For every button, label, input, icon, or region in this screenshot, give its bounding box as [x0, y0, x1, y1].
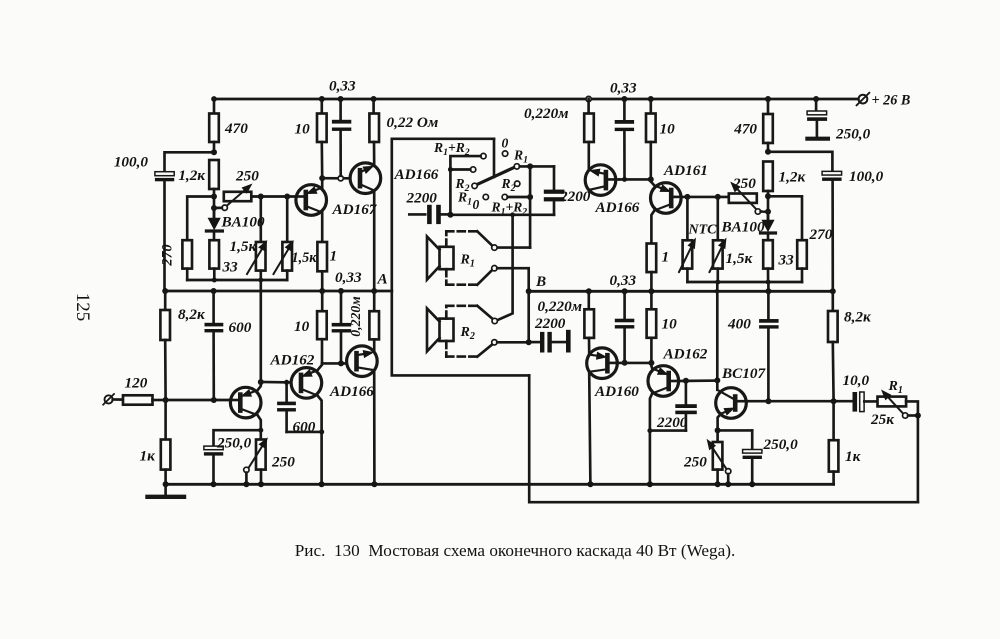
label AD166 module	[394, 166, 439, 183]
svg-text:470: 470	[733, 121, 757, 138]
svg-text:400: 400	[727, 316, 751, 333]
wire ground rail	[166, 483, 834, 486]
node A-rail / capacitor 0,33 lower-left	[338, 288, 344, 294]
node R10/Q1/AD167-base left	[319, 175, 325, 181]
page number 125	[72, 293, 93, 322]
wire AD162 base to bias line right	[679, 379, 718, 382]
wiper contact 250 left-top	[214, 205, 227, 210]
node ground / 250 left	[258, 481, 264, 487]
node A-rail / 100,0 / 8,2k left	[162, 288, 168, 294]
svg-text:2200: 2200	[559, 188, 591, 205]
wiper contact 250 right-bottom	[726, 469, 731, 485]
contact speaker R1 bottom	[492, 266, 497, 271]
node emitter / capacitor 600 lower wire	[319, 429, 324, 434]
wiper contact 25k	[903, 413, 918, 418]
wire Q1 collector up left	[321, 178, 324, 187]
wire bias bracket left	[187, 279, 287, 282]
node ground / capacitor 250,0 right	[749, 481, 755, 487]
svg-text:AD166: AD166	[329, 383, 374, 400]
switch arm	[476, 167, 515, 185]
svg-text:33: 33	[222, 259, 239, 276]
label 0,220м at B	[538, 298, 583, 315]
node base wire / capacitor 600 left	[211, 397, 217, 403]
wire node to AD162 base left	[261, 381, 291, 384]
caption	[295, 541, 736, 560]
wire AD162 emitter down to ground rail left	[317, 396, 321, 485]
transistor AD161	[651, 162, 708, 213]
transistor AD162 left	[270, 352, 322, 399]
label 250 left-bottom	[271, 454, 295, 471]
node 470/1,2k right	[765, 149, 771, 155]
wire AD162 emitter down to ground right	[650, 394, 652, 485]
ground symbol	[148, 484, 185, 497]
thermistor NTC right	[679, 197, 717, 282]
svg-text:470: 470	[224, 120, 248, 137]
svg-text:0,220м: 0,220м	[524, 105, 569, 122]
wire speaker R1 bottom contact to B	[497, 268, 529, 342]
svg-text:0: 0	[473, 197, 480, 212]
speaker R1 cable dashed	[446, 231, 477, 284]
node bottom bus / capacitor 2200 module	[447, 212, 453, 218]
svg-text:NTC: NTC	[688, 223, 718, 238]
wire +26V top supply rail	[214, 98, 858, 101]
capacitor C 400	[727, 316, 779, 402]
svg-text:AD167: AD167	[332, 201, 378, 218]
node left bus / R2 wire	[448, 167, 453, 172]
node B-rail / 0,22 right	[586, 288, 592, 294]
svg-text:1,5к: 1,5к	[726, 250, 754, 267]
wire R1+R2 contact to left bus	[450, 156, 480, 215]
svg-text:1к: 1к	[845, 448, 862, 465]
node emitter / capacitor 250,0 wire left	[258, 428, 263, 433]
input terminal left	[103, 394, 114, 405]
trimmer resistor 1,5k right	[710, 197, 754, 282]
node input/8,2k/1k left	[163, 397, 169, 403]
resistor R 10 top-left	[295, 99, 327, 178]
wire AD166 base to AD161 node	[619, 178, 651, 181]
svg-text:1,5к: 1,5к	[230, 238, 258, 255]
speaker R2 plug bottom	[477, 344, 492, 356]
svg-text:25к: 25к	[870, 411, 895, 428]
node top rail / resistor 470 left	[211, 96, 217, 102]
potentiometer 250 left-bottom	[248, 437, 267, 484]
node base wire / 1,5k-2 left	[284, 194, 290, 200]
wire 25k right end	[906, 401, 918, 502]
node base wire / 1,5k-1 left	[258, 194, 264, 200]
transistor AD160	[587, 348, 640, 400]
node base wire / capacitor 2200 lower right	[683, 378, 689, 384]
node R10 / AD160 base / AD162 collector right	[648, 360, 654, 366]
resistor R 1,2k right	[763, 162, 806, 220]
resistor R 120 input	[113, 375, 166, 405]
svg-text:0,22 Ом: 0,22 Ом	[387, 114, 439, 131]
speaker R1 plug bottom	[477, 270, 492, 285]
node A-rail / resistor 1 left	[319, 288, 325, 294]
node AD162 base / capacitor 600 left	[284, 380, 289, 385]
wire BC107 collector line	[746, 400, 853, 403]
svg-text:8,2к: 8,2к	[178, 306, 206, 323]
svg-text:0,33: 0,33	[610, 80, 637, 97]
node bias line / AD162 base wire right	[714, 377, 720, 383]
wire 33 line down to capacitor 400	[767, 282, 770, 319]
svg-text:0,220м: 0,220м	[348, 296, 363, 337]
svg-text:AD166: AD166	[595, 199, 640, 216]
node B-rail / bias line crossing	[715, 289, 720, 294]
svg-text:2200: 2200	[406, 190, 438, 207]
node B	[526, 273, 546, 294]
svg-text:120: 120	[125, 375, 148, 392]
node top rail / capacitor 250,0	[813, 96, 819, 102]
wire AD162 collector bend up left	[317, 363, 322, 370]
node top rail / capacitor 0,33 top-right	[621, 96, 627, 102]
svg-text:1,2к: 1,2к	[779, 169, 807, 186]
contact R1+R2 bottom	[491, 194, 528, 217]
resistor R 1 right	[647, 244, 669, 292]
capacitor C 250,0 top (electrolytic)	[807, 99, 870, 143]
wire branch down to speaker R2 top contact	[497, 215, 513, 320]
wire speaker R2 bottom contact to node	[497, 341, 529, 344]
node ground / AD166 collector left	[371, 481, 377, 487]
resistor R 270 right	[797, 226, 832, 282]
wiper contact 250 left-bottom	[244, 467, 249, 484]
wire feedback return bottom	[529, 375, 918, 502]
svg-text:270: 270	[160, 244, 176, 266]
wire Q0 collector to AD162 base node	[258, 382, 261, 390]
resistor R 270 left	[160, 240, 193, 280]
capacitor C 0,33 lower-left	[332, 291, 352, 363]
capacitor C 2200 at B (two electrolytics)	[529, 315, 571, 353]
svg-text:250,0: 250,0	[835, 126, 871, 143]
resistor R 0,22 Ом top-left	[369, 99, 438, 166]
capacitor C 0,33 top-left	[329, 78, 356, 176]
svg-text:AD162: AD162	[270, 352, 315, 369]
wire R2 contact to left bus	[450, 168, 470, 171]
node Q0-collector/AD162-base left	[258, 379, 264, 385]
resistor R 0,22 lower-left	[348, 291, 379, 352]
node ground / capacitor 250,0 left	[211, 481, 217, 487]
svg-text:AD160: AD160	[594, 383, 639, 400]
capacitor C 0,33 lower-right	[615, 291, 635, 363]
contact R1+R2 top	[433, 140, 486, 159]
capacitor C 2200 lower-right	[650, 381, 697, 431]
svg-text:250: 250	[683, 454, 707, 471]
wire arm contact to capacitor 2200 mid	[520, 165, 554, 168]
wire AD166 base node left	[322, 362, 357, 365]
node ground / wiper left	[243, 481, 249, 487]
node top rail / resistor 10 left	[319, 96, 325, 102]
svg-text:BA100: BA100	[721, 219, 765, 236]
svg-text:AD161: AD161	[663, 162, 708, 179]
wire trimmer to transistor base left	[251, 195, 296, 198]
diode BA100 right	[721, 215, 776, 240]
wire AD161 emitter down	[651, 211, 654, 244]
node A-rail / capacitor 600 left	[211, 288, 217, 294]
node BC107 emitter / 250 / 250,0 right	[715, 427, 721, 433]
contact speaker R2 top	[492, 318, 497, 323]
svg-text:250: 250	[732, 175, 756, 192]
contact R2 middle-left	[455, 167, 476, 194]
svg-text:BA100: BA100	[221, 214, 265, 231]
contact R2 middle-right	[501, 176, 520, 194]
speaker R2 plug top	[477, 306, 492, 319]
svg-text:0,33: 0,33	[610, 272, 637, 289]
svg-text:1,5к: 1,5к	[292, 250, 318, 266]
svg-text:0,220м: 0,220м	[538, 298, 583, 315]
contact arm left end	[472, 183, 477, 188]
wire bias line down right (1,5k to AD162 base node)	[716, 282, 719, 380]
svg-text:1,2к: 1,2к	[178, 167, 206, 184]
svg-text:+ 26 В: + 26 В	[872, 93, 911, 109]
svg-text:125: 125	[72, 293, 93, 322]
node 470/1,2k left	[211, 149, 217, 155]
resistor R 470 right	[733, 99, 773, 152]
ground chassis under 250,0	[807, 137, 828, 141]
speaker R1 plug top	[477, 231, 492, 246]
node ground / 1k left	[163, 481, 169, 487]
contact speaker R2 bottom	[492, 340, 497, 345]
wire bias node to resistor 270 right	[768, 196, 802, 240]
wire AD167 collector to A rail	[373, 191, 376, 291]
wire bottom bus of switch block	[450, 213, 554, 216]
wire B rail	[529, 290, 833, 293]
contact 0 bottom	[473, 194, 489, 212]
wire node to capacitor 100,0 left	[165, 152, 215, 171]
node B-rail / capacitor 0,33 lower-right	[622, 288, 628, 294]
node 1,2k/bias left	[211, 194, 217, 200]
svg-text:AD162: AD162	[663, 346, 708, 363]
node bracket / 33 right	[766, 280, 771, 285]
module box AD166 output block	[392, 139, 529, 376]
svg-text:0: 0	[502, 136, 509, 151]
wire emitter node to capacitor 250,0 right	[718, 429, 753, 432]
resistor R 10 lower-right	[647, 291, 677, 363]
svg-text:1: 1	[330, 248, 338, 265]
node switch right bus bottom	[527, 194, 533, 200]
svg-text:2200: 2200	[534, 315, 566, 332]
capacitor C 600 upper-left	[205, 291, 252, 400]
resistor R 8,2k left	[160, 291, 206, 400]
node top rail / resistor 10 right	[648, 96, 654, 102]
node B-rail end / 100,0 / 8,2k right	[830, 288, 836, 294]
capacitor C 250,0 right (electrolytic)	[743, 430, 798, 484]
wire R1+R2 bottom contact to right bus	[508, 196, 530, 199]
node A	[371, 271, 387, 295]
svg-text:B: B	[535, 273, 546, 290]
node switch right bus top	[527, 163, 533, 169]
svg-text:10: 10	[295, 121, 311, 138]
speaker R2 cable dashed	[446, 306, 477, 357]
capacitor C 100,0 left (electrolytic)	[114, 154, 174, 292]
capacitor C 10,0 (electrolytic)	[843, 372, 878, 412]
trimmer resistor 1,5k left no.2	[274, 197, 318, 281]
resistor R 8,2k right	[828, 291, 872, 401]
node 25k wiper	[915, 413, 921, 419]
speaker R2	[427, 308, 475, 351]
resistor R 0,22 lower-right	[584, 291, 594, 354]
capacitor C 2200 mid vertical (electrolytic)	[544, 166, 591, 214]
label R1 middle	[457, 190, 472, 208]
node emitter / capacitor 2200 lower wire right	[647, 428, 652, 433]
capacitor C 0,33 top-right	[610, 80, 637, 178]
resistor R 10 top-right	[646, 99, 675, 179]
svg-text:0,33: 0,33	[329, 78, 356, 95]
transistor AD166 upper-right	[585, 165, 640, 216]
wire node to AD167 base	[322, 177, 350, 180]
svg-text:600: 600	[229, 319, 252, 336]
wire AD161 collector bend up	[651, 179, 655, 185]
svg-text:10: 10	[294, 318, 310, 335]
node R10 right / AD161 collector	[648, 176, 654, 182]
wire switch right bus	[529, 166, 532, 247]
node 1,2k/bias right	[765, 193, 771, 199]
wire AD162 collector bend up right	[650, 363, 653, 369]
potentiometer R1 25k feedback	[870, 379, 906, 428]
wire A rail	[165, 290, 392, 293]
svg-text:10: 10	[662, 316, 678, 333]
svg-text:0,33: 0,33	[335, 269, 362, 286]
wire bias bracket right	[687, 281, 802, 284]
transistor AD166 lower-left	[329, 346, 377, 400]
svg-text:1к: 1к	[140, 448, 157, 465]
resistor R 10 lower-left	[294, 291, 327, 363]
node ground / AD162 emitter right	[647, 481, 653, 487]
svg-text:250,0: 250,0	[763, 436, 799, 453]
node top rail / resistor 0,22 right (open junction)	[586, 96, 591, 101]
speaker R1	[427, 237, 475, 280]
wire AD161 base to trimmer right	[681, 196, 729, 199]
transistor Q1 driver left	[296, 185, 327, 216]
node collector line / 8,2k / 1k right	[831, 398, 837, 404]
node B-rail / capacitor 400 line	[765, 288, 771, 294]
resistor R 1 left	[317, 242, 337, 291]
node cap 0,33 top-right lead	[622, 177, 627, 182]
resistor R 470 left	[209, 99, 248, 152]
capacitor C 100,0 right (electrolytic)	[822, 168, 883, 291]
resistor R 33 right	[763, 240, 794, 282]
wire BC107 emitter down	[718, 414, 721, 431]
node ground / AD160 line	[587, 481, 593, 487]
wire Q0 emitter down	[258, 415, 261, 439]
node base wire / NTC right	[684, 194, 690, 200]
node ground / 250 right	[715, 481, 721, 487]
transistor Q0 input left	[230, 387, 261, 418]
resistor R 1k right	[829, 401, 862, 484]
resistor R 1k left	[140, 400, 171, 484]
node bottom bus / speaker R2 branch	[510, 212, 515, 217]
contact 0 top	[502, 136, 509, 157]
svg-text:Рис. 130 Мостовая схема окон: Рис. 130 Мостовая схема оконечного каска…	[295, 541, 736, 560]
wire switch common from box top	[493, 139, 496, 177]
terminal +26V	[857, 93, 911, 109]
node base wire / capacitor 0,33 lower-right	[622, 360, 628, 366]
svg-text:250: 250	[271, 454, 295, 471]
label 0,33 right rail	[610, 272, 637, 289]
node ground / wiper right	[725, 481, 731, 487]
node bracket/1,5k-1 left	[258, 278, 263, 283]
svg-text:33: 33	[778, 252, 795, 269]
potentiometer 250 right-bottom	[683, 430, 726, 484]
wire input base wire left	[166, 399, 231, 402]
wire node to capacitor 100,0 right	[768, 152, 832, 171]
wire Q1 emitter down	[321, 213, 324, 243]
node bracket / 1,5k right	[715, 280, 720, 285]
transistor BC107	[716, 365, 767, 418]
svg-text:A: A	[377, 271, 388, 288]
svg-text:250: 250	[235, 168, 259, 185]
svg-text:8,2к: 8,2к	[844, 309, 872, 326]
label 0,33 left	[335, 269, 362, 286]
node base wire / 1,5k right	[715, 194, 721, 200]
wire bias node to resistor 270 left	[187, 197, 214, 241]
wire AD160 base to AD162 collector node	[617, 362, 651, 365]
node top rail / capacitor 0,33 top-left	[338, 96, 344, 102]
contact speaker R1 top	[492, 245, 497, 250]
diode BA100 left	[206, 212, 265, 240]
node trimmer wiper right	[765, 209, 771, 215]
junction capacitor lead (open) left	[338, 176, 343, 181]
wiper contact 250 right-top	[755, 209, 768, 214]
wire bracket down to lower stage left	[259, 280, 262, 382]
wire AD160 emitter line down to ground	[589, 372, 590, 485]
svg-text:270: 270	[809, 226, 833, 243]
svg-text:AD166: AD166	[394, 166, 439, 183]
resistor R 0,22 top-right	[524, 99, 594, 170]
svg-text:1: 1	[662, 249, 670, 266]
trimmer potentiometer 250 right-top	[729, 175, 757, 209]
resistor R 1,2k left	[178, 160, 218, 218]
wire right bus to speaker R1 top contact	[497, 246, 530, 249]
wire AD166 collector to ground rail left	[373, 370, 376, 484]
trimmer resistor 1,5k left no.1	[230, 197, 268, 281]
resistor R 33 left	[209, 240, 238, 280]
trimmer potentiometer 250 left-top	[224, 168, 259, 207]
svg-text:100,0: 100,0	[114, 154, 149, 171]
node top rail / resistor 0,22 left	[371, 96, 377, 102]
svg-text:2200: 2200	[656, 414, 688, 431]
svg-text:100,0: 100,0	[849, 168, 884, 185]
node speaker R2 / capacitor 2200 B	[526, 339, 532, 345]
node capacitor 400 / BC107 collector	[765, 398, 771, 404]
transistor AD167	[332, 163, 381, 218]
svg-text:10,0: 10,0	[843, 372, 870, 389]
node top rail / resistor 470 right	[765, 96, 771, 102]
svg-text:BC107: BC107	[721, 365, 766, 382]
svg-text:10: 10	[660, 121, 676, 138]
node ground / AD162 emitter left	[319, 481, 325, 487]
node trimmer wiper left	[211, 205, 217, 211]
contact R1 top-right (arm end)	[513, 148, 528, 170]
capacitor C 250,0 left (electrolytic)	[204, 430, 261, 484]
svg-text:600: 600	[293, 419, 316, 436]
svg-text:250,0: 250,0	[216, 435, 252, 452]
capacitor C 600 lower-left	[277, 382, 322, 435]
node bracket/33 left	[212, 278, 217, 283]
node B-rail / resistor 1 right	[648, 288, 654, 294]
capacitor C 2200 module (electrolytic)	[406, 190, 451, 225]
transistor AD162 right	[648, 346, 708, 397]
node base wire / capacitor 0,33 lower-left	[338, 360, 344, 366]
